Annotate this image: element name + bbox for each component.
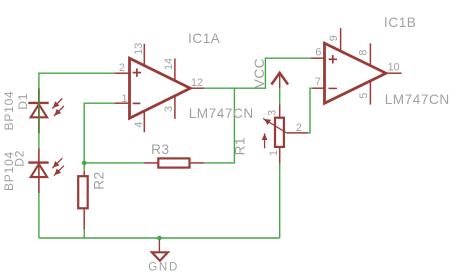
svg-text:R1: R1: [232, 137, 247, 155]
svg-text:IC1A: IC1A: [188, 31, 221, 46]
wire net through D1: [38, 88, 40, 134]
wire junction to R2 top: [83, 163, 85, 171]
photodiode D1: [28, 103, 48, 117]
svg-text:7: 7: [315, 76, 321, 88]
svg-text:D2: D2: [13, 150, 27, 167]
svg-text:BP104: BP104: [2, 90, 16, 130]
wire R1 wiper to IC1B pin7: [308, 88, 313, 133]
resistor R2: [78, 171, 88, 229]
svg-text:6: 6: [315, 47, 321, 59]
svg-text:8: 8: [358, 50, 370, 56]
wire bottom ground rail: [39, 237, 280, 239]
svg-text:LM747CN: LM747CN: [189, 106, 254, 121]
svg-text:1: 1: [122, 93, 128, 105]
ground symbol GND: [152, 238, 168, 261]
wire VCC symbol to R1 pin3: [279, 89, 281, 105]
svg-text:2: 2: [119, 62, 125, 74]
svg-text:VCC: VCC: [252, 58, 267, 88]
svg-text:5: 5: [358, 93, 370, 99]
wire R2 bottom to rail: [83, 229, 85, 238]
svg-text:9: 9: [328, 35, 340, 41]
svg-text:3: 3: [266, 110, 278, 116]
op-amp IC1B: [311, 28, 402, 105]
svg-text:14: 14: [163, 58, 175, 70]
junction node at GND on rail: [157, 236, 162, 241]
svg-text:D1: D1: [16, 93, 30, 110]
wire net D chain top to IC1A pin2: [39, 73, 115, 88]
wire R3 right up to output net: [204, 88, 234, 163]
photodiode D2 light arrows: [52, 158, 64, 176]
svg-text:12: 12: [191, 77, 203, 89]
resistor R3: [144, 158, 204, 167]
photodiode D2 pin line: [38, 148, 40, 193]
svg-text:LM747CN: LM747CN: [385, 92, 450, 107]
op-amp IC1A: [115, 44, 204, 133]
junction node at R2/R3/IC1A pin1: [82, 161, 87, 166]
wire IC1A pin12 output to IC1B pin6: [204, 58, 311, 88]
VCC supply symbol: [271, 72, 288, 89]
wire junction to R3 left: [84, 162, 144, 164]
photodiode D1 light arrows: [52, 99, 64, 117]
wire D1 anode to D2 cathode: [38, 133, 40, 148]
svg-text:13: 13: [133, 43, 145, 55]
svg-text:4: 4: [133, 122, 145, 128]
photodiode D2: [28, 163, 48, 178]
photodiode D1 pin line: [38, 89, 40, 134]
svg-text:3: 3: [163, 106, 175, 112]
svg-text:R3: R3: [151, 142, 169, 157]
svg-text:2: 2: [296, 122, 302, 134]
wire IC1A pin1 to junction: [84, 103, 115, 163]
svg-text:R2: R2: [91, 171, 106, 189]
svg-text:1: 1: [268, 150, 280, 156]
svg-text:IC1B: IC1B: [384, 15, 416, 30]
wire R1 pin1 down to rail: [279, 164, 281, 238]
potentiometer R1: [262, 104, 308, 163]
wire D2 anode down to bottom rail: [38, 193, 40, 238]
svg-text:GND: GND: [148, 261, 179, 273]
svg-text:10: 10: [388, 62, 400, 74]
